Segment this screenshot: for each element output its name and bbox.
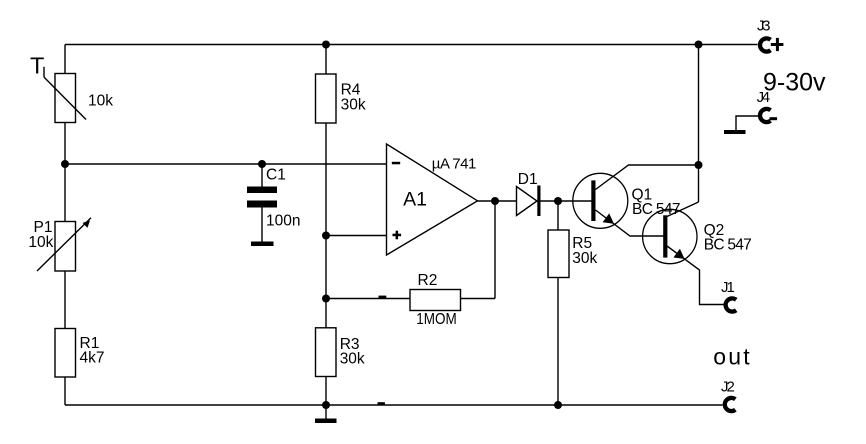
junction dot left rail inverting net: [61, 160, 69, 168]
resistor R5 body: [548, 230, 569, 278]
ground below R3: [315, 405, 337, 423]
junction dot R5 tap: [554, 197, 562, 205]
resistor R4 body: [316, 74, 337, 123]
junction dot R3 ground: [322, 401, 330, 409]
connector J1: [726, 298, 737, 311]
ground at J4: [724, 130, 746, 134]
svg-text:J1: J1: [721, 279, 735, 296]
tick on feedback wire: [379, 296, 387, 299]
connector J4 minus sign: [770, 117, 778, 120]
svg-text:out: out: [713, 343, 750, 369]
junction dot top rail at column: [322, 41, 330, 49]
svg-text:100n: 100n: [266, 212, 300, 229]
svg-text:30k: 30k: [572, 250, 597, 267]
junction dot top rail at right rail: [695, 41, 703, 49]
wire R5 top stem: [557, 201, 559, 230]
transistor Q2 base bar: [663, 215, 667, 257]
connector J3 plus sign: [771, 38, 784, 51]
op-amp minus pin mark: [392, 162, 400, 165]
thermistor T body: [44, 67, 86, 123]
svg-text:A1: A1: [403, 189, 427, 211]
transistor Q1 base bar: [591, 180, 595, 221]
wire bottom rail: [65, 404, 723, 406]
svg-text:J2: J2: [721, 379, 735, 396]
wire R5 bottom stem: [557, 278, 559, 406]
svg-text:µA 741: µA 741: [432, 156, 477, 173]
connector J3: [760, 38, 771, 51]
svg-text:J4: J4: [757, 89, 771, 106]
svg-text:1MOM: 1MOM: [416, 311, 457, 328]
ground below C1: [251, 242, 274, 247]
connector J2: [725, 398, 736, 411]
transistor Q2 emitter arrow: [673, 249, 684, 259]
transistor Q1 circle: [573, 173, 628, 228]
svg-text:10k: 10k: [28, 234, 53, 251]
connector J4: [760, 109, 771, 122]
wire top supply rail: [65, 44, 758, 46]
svg-text:C1: C1: [266, 167, 286, 184]
wire C1 bottom stem: [261, 207, 263, 243]
op-amp plus pin mark: [393, 231, 402, 240]
junction dot C1 tap: [258, 160, 266, 168]
svg-text:30k: 30k: [341, 97, 366, 114]
wire feedback vertical: [494, 201, 496, 299]
svg-text:D1: D1: [518, 171, 538, 188]
wire right rail vertical: [698, 45, 700, 203]
wire inverting input net: [65, 163, 387, 165]
junction dot feedback tap: [322, 295, 330, 303]
transistor Q2 emitter wire: [667, 246, 726, 305]
wire D1 to Q1 base: [541, 200, 592, 202]
tick on bottom rail: [378, 402, 385, 405]
capacitor C1 plates: [247, 187, 277, 208]
diode D1: [517, 186, 541, 217]
svg-text:J3: J3: [757, 18, 771, 35]
wire R2 left to column: [326, 298, 410, 300]
svg-text:30k: 30k: [340, 351, 365, 368]
wire C1 top stem: [261, 164, 263, 187]
junction dot R5 bottom rail: [554, 401, 562, 409]
transistor Q2 collector wire: [667, 202, 699, 217]
svg-text:4k7: 4k7: [80, 350, 105, 367]
junction dot Q1 collector at right rail: [695, 161, 703, 169]
junction dot non-inverting tap: [322, 232, 330, 240]
junction dot op-amp output: [491, 197, 499, 205]
resistor R3 body: [316, 328, 337, 377]
svg-text:T: T: [30, 52, 44, 78]
transistor Q1 collector wire: [596, 165, 699, 190]
svg-text:BC 547: BC 547: [704, 237, 752, 254]
svg-text:10k: 10k: [88, 92, 113, 109]
resistor R2 body: [410, 290, 461, 311]
wire left rail vertical: [64, 45, 66, 406]
resistor R1 body: [55, 329, 76, 378]
transistor Q2 circle: [643, 209, 697, 263]
wire non-inverting input: [326, 235, 387, 237]
transistor Q1 emitter arrow: [603, 213, 614, 223]
transistor Q1 emitter wire: [596, 210, 664, 236]
potentiometer P1 body: [37, 218, 91, 271]
wire feedback to R2 right: [461, 298, 496, 300]
wire R4-R3 column: [325, 45, 327, 406]
svg-text:9-30v: 9-30v: [763, 69, 826, 97]
wire op-amp output to D1: [478, 200, 517, 202]
op-amp A1 triangle: [387, 144, 478, 255]
wire J4 stub: [736, 116, 759, 131]
svg-text:R2: R2: [418, 272, 438, 289]
svg-text:BC 547: BC 547: [632, 201, 681, 218]
